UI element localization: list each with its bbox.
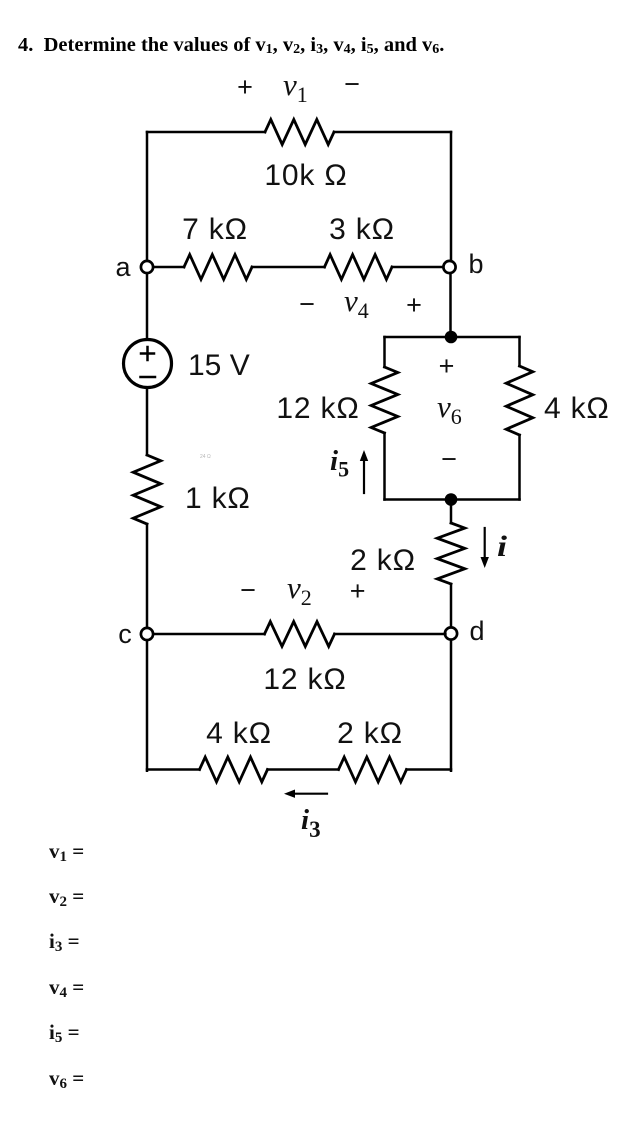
- svg-text:a: a: [115, 252, 131, 282]
- wire: node b to top junction: [449, 274, 452, 338]
- wire: 12k resistor to node d: [335, 633, 446, 636]
- current arrow i3 (left): [292, 793, 327, 795]
- current arrow i5 (up): [363, 458, 365, 493]
- answer line v1: [49, 839, 84, 866]
- wire: bottom junction to 2k resistor: [450, 500, 453, 524]
- svg-text:c: c: [118, 619, 132, 649]
- svg-text:i3: i3: [301, 804, 321, 842]
- node a (open circle): [141, 261, 153, 273]
- svg-text:4 kΩ: 4 kΩ: [544, 392, 610, 425]
- svg-text:7 kΩ: 7 kΩ: [182, 213, 248, 246]
- svg-text:12 kΩ: 12 kΩ: [263, 663, 346, 696]
- answer line v2: [49, 884, 84, 911]
- wire: parallel top bar: [385, 336, 520, 339]
- wire: right rail bottom (node d to bottom rail): [450, 640, 453, 771]
- answer line i3: [49, 929, 80, 956]
- resistor 1k ohm (left rail): [133, 455, 161, 524]
- wire: right branch bottom lead: [518, 435, 521, 500]
- wire: left branch bottom lead: [383, 433, 386, 500]
- wire: top rail right segment: [334, 131, 451, 134]
- wire: between 7k and 3k: [252, 266, 325, 269]
- answer line i5: [49, 1020, 80, 1047]
- node c (open circle): [141, 628, 153, 640]
- svg-text:v6: v6: [437, 389, 462, 429]
- svg-text:24 Ω: 24 Ω: [200, 454, 211, 460]
- svg-text:12 kΩ: 12 kΩ: [276, 392, 359, 425]
- svg-text:v1: v1: [283, 67, 308, 107]
- node b (open circle): [443, 261, 455, 273]
- svg-text:10k Ω: 10k Ω: [264, 159, 347, 192]
- svg-text:i: i: [497, 530, 508, 563]
- answer line v6: [49, 1066, 84, 1093]
- svg-text:+: +: [406, 290, 422, 320]
- resistor 2k ohm (right vertical): [437, 523, 465, 584]
- svg-text:−: −: [240, 575, 256, 605]
- resistor 3k ohm: [325, 255, 393, 280]
- wire: right branch top lead: [518, 337, 521, 366]
- svg-text:3 kΩ: 3 kΩ: [329, 213, 395, 246]
- svg-text:−: −: [344, 69, 360, 99]
- resistor 12k ohm (c-d wire): [265, 622, 335, 647]
- resistor 10k ohm (top): [265, 120, 334, 145]
- wire: top rail left segment: [147, 131, 265, 134]
- wire: node c to 12k resistor: [154, 633, 265, 636]
- wire: 3k resistor to node b: [392, 266, 444, 269]
- svg-text:4 kΩ: 4 kΩ: [206, 717, 272, 750]
- svg-text:d: d: [469, 616, 484, 646]
- wire: bottom rail middle segment: [268, 768, 339, 771]
- answer line v4: [49, 975, 84, 1002]
- wire: node a to voltage source: [146, 274, 149, 341]
- resistor 12k ohm (parallel left): [371, 367, 398, 433]
- svg-text:+: +: [439, 351, 455, 381]
- svg-text:v4: v4: [344, 283, 369, 323]
- junction node (top of parallel pair): [445, 331, 458, 344]
- svg-text:+: +: [350, 576, 366, 606]
- svg-text:−: −: [441, 444, 457, 474]
- wire: 2k resistor to node d: [450, 584, 453, 627]
- svg-text:2 kΩ: 2 kΩ: [350, 544, 416, 577]
- svg-text:i5: i5: [330, 445, 349, 482]
- wire: bottom rail left segment: [147, 768, 200, 771]
- svg-text:−: −: [299, 289, 315, 319]
- wire: left rail bottom (node c to bottom rail): [146, 641, 149, 771]
- resistor 4k ohm (parallel right): [506, 366, 533, 435]
- voltage source 15V circle: [124, 340, 172, 388]
- resistor 2k ohm (bottom): [339, 757, 407, 782]
- wire: voltage source to 1k resistor: [146, 388, 149, 456]
- voltage source plus sign: [141, 347, 154, 360]
- svg-text:b: b: [468, 249, 483, 279]
- wire: parallel bottom bar: [385, 498, 520, 501]
- svg-text:+: +: [237, 72, 253, 102]
- wire: bottom rail right segment: [407, 768, 452, 771]
- wire: right rail top (top rail to node b): [450, 132, 453, 261]
- problem title: [18, 34, 444, 58]
- svg-text:2 kΩ: 2 kΩ: [337, 717, 403, 750]
- wire: 1k resistor to node c: [146, 524, 149, 628]
- wire: left rail top (top rail to node a): [146, 132, 149, 261]
- resistor 4k ohm (bottom): [200, 757, 268, 782]
- svg-text:1 kΩ: 1 kΩ: [185, 482, 251, 515]
- node d (open circle): [445, 627, 457, 639]
- voltage source minus sign: [141, 376, 156, 379]
- current arrow i (down): [484, 528, 486, 560]
- junction node (bottom of parallel pair): [445, 493, 458, 506]
- wire: left branch top lead: [383, 337, 386, 367]
- wire: node a to 7k resistor: [154, 266, 185, 269]
- resistor 7k ohm: [184, 255, 252, 280]
- svg-text:15 V: 15 V: [188, 349, 250, 382]
- svg-text:v2: v2: [287, 570, 312, 610]
